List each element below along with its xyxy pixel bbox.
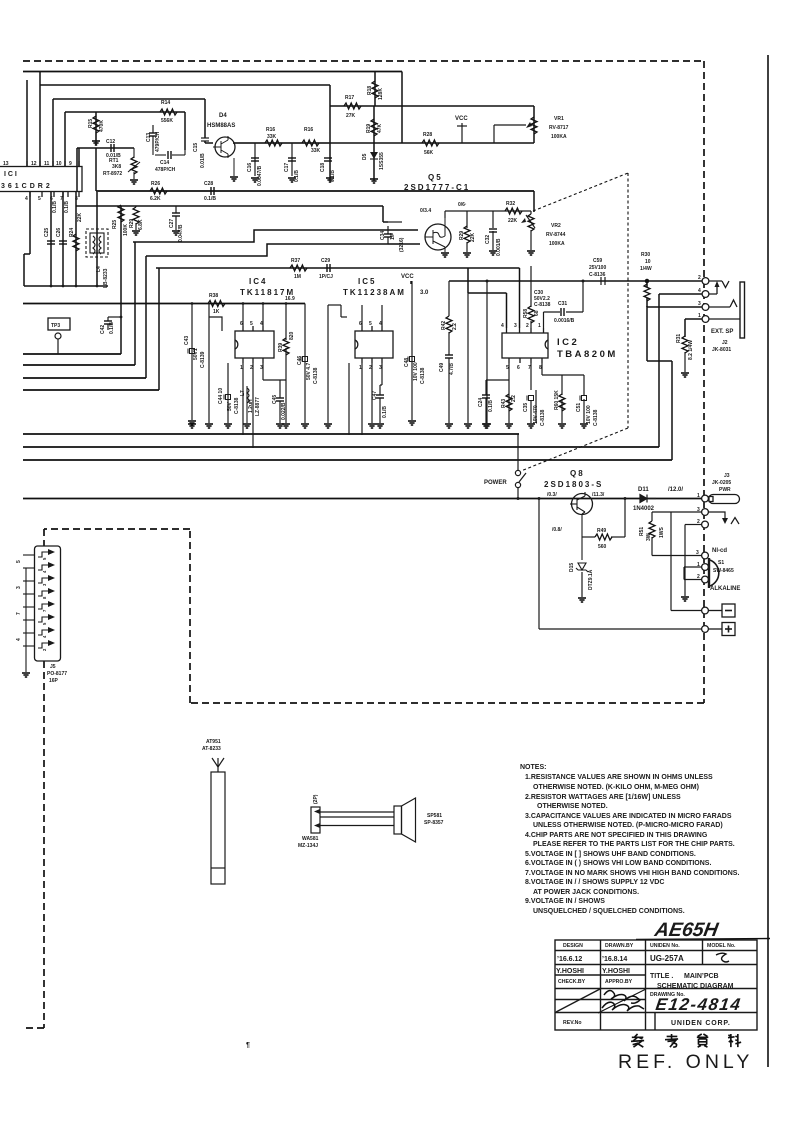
svg-text:10V 470: 10V 470 (533, 405, 539, 424)
svg-text:VCC: VCC (401, 274, 414, 280)
svg-text:100KA: 100KA (549, 241, 565, 247)
svg-text:9: 9 (69, 161, 72, 167)
svg-text:1N4002: 1N4002 (633, 506, 655, 512)
svg-text:Q8: Q8 (570, 469, 585, 478)
svg-text:VR2: VR2 (551, 223, 561, 229)
svg-text:R38: R38 (209, 293, 218, 299)
svg-text:C-8138: C-8138 (540, 409, 546, 426)
svg-text:VCC: VCC (455, 116, 468, 122)
svg-text:R16: R16 (304, 127, 313, 133)
svg-text:C-8138: C-8138 (534, 302, 551, 308)
svg-text:R18: R18 (367, 86, 373, 95)
svg-text:/12.0/: /12.0/ (668, 487, 683, 493)
svg-text:1.RESISTANCE VALUES ARE SHOWN: 1.RESISTANCE VALUES ARE SHOWN IN OHMS UN… (525, 774, 713, 781)
svg-text:R26: R26 (151, 181, 160, 187)
svg-text:7: 7 (60, 196, 63, 202)
svg-text:4.CHIP PARTS ARE NOT SPECIFIED: 4.CHIP PARTS ARE NOT SPECIFIED IN THIS D… (525, 832, 708, 839)
svg-text:C42: C42 (100, 325, 106, 334)
svg-text:R14: R14 (161, 100, 170, 106)
svg-text:R39: R39 (278, 343, 284, 352)
svg-text:TP3: TP3 (51, 323, 60, 329)
svg-text:D11: D11 (638, 487, 649, 493)
svg-text:R25: R25 (112, 220, 118, 229)
svg-text:SW-8465: SW-8465 (713, 568, 734, 574)
svg-text:Y.HOSHI: Y.HOSHI (556, 968, 584, 975)
svg-text:(2P): (2P) (313, 794, 319, 804)
svg-text:0.1/B: 0.1/B (488, 400, 494, 412)
svg-text:R15: R15 (88, 119, 94, 128)
svg-text:C32: C32 (485, 235, 491, 244)
svg-text:RV-8744: RV-8744 (546, 232, 566, 238)
svg-text:/11.3/: /11.3/ (592, 492, 605, 498)
svg-text:1: 1 (538, 323, 541, 329)
svg-text:SP-8357: SP-8357 (424, 820, 444, 826)
svg-text:C43: C43 (184, 336, 190, 345)
svg-text:IC5: IC5 (358, 277, 376, 286)
svg-text:MZ-134J: MZ-134J (298, 843, 318, 849)
svg-text:HSM88AS: HSM88AS (207, 123, 235, 129)
svg-text:3: 3 (698, 301, 701, 307)
svg-text:J3: J3 (724, 473, 730, 479)
svg-text:0.1/B: 0.1/B (330, 170, 336, 182)
svg-text:Y.HOSHI: Y.HOSHI (602, 968, 630, 975)
svg-text:C48: C48 (404, 358, 410, 367)
svg-text:C13: C13 (146, 133, 152, 142)
svg-text:8.VOLTAGE IN / / SHOWS SUPPL: 8.VOLTAGE IN / / SHOWS SUPPLY 12 VDC (525, 879, 664, 886)
svg-text:(3216): (3216) (399, 237, 405, 252)
svg-text:ALKALINE: ALKALINE (710, 586, 740, 592)
svg-text:TITLE .: TITLE . (650, 973, 673, 980)
svg-text:AE65H: AE65H (652, 919, 720, 941)
svg-text:C25: C25 (44, 228, 50, 237)
svg-text:R42: R42 (441, 321, 447, 330)
svg-text:R29: R29 (129, 219, 135, 228)
svg-text:5: 5 (250, 321, 253, 327)
svg-text:1K: 1K (213, 309, 220, 315)
svg-text:APPRO.BY: APPRO.BY (605, 979, 633, 985)
svg-text:R16: R16 (266, 127, 275, 133)
svg-text:R60 15K: R60 15K (554, 390, 560, 410)
svg-text:0.047/B: 0.047/B (178, 224, 184, 242)
svg-text:C-8138: C-8138 (593, 409, 599, 426)
svg-text:7: 7 (16, 612, 22, 615)
svg-text:820: 820 (289, 331, 295, 340)
svg-text:5: 5 (16, 560, 22, 563)
svg-text:UNSQUELCHED / SQUELCHED CONDIT: UNSQUELCHED / SQUELCHED CONDITIONS. (533, 908, 685, 915)
svg-text:8: 8 (75, 196, 78, 202)
svg-text:560: 560 (598, 544, 607, 550)
svg-text:R37: R37 (291, 258, 300, 264)
svg-text:C17: C17 (284, 163, 290, 172)
svg-text:C16: C16 (247, 163, 253, 172)
svg-text:S1: S1 (718, 560, 724, 566)
svg-text:5: 5 (369, 321, 372, 327)
svg-text:PLEASE REFER TO THE PARTS LIST: PLEASE REFER TO THE PARTS LIST FOR THE C… (533, 841, 735, 848)
svg-text:/0.8/: /0.8/ (552, 527, 562, 533)
svg-text:4: 4 (698, 288, 701, 294)
svg-text:E12-4814: E12-4814 (654, 995, 742, 1014)
svg-text:0.1/B: 0.1/B (204, 196, 216, 202)
svg-text:7.VOLTAGE IN NO MARK SHOWS VHI: 7.VOLTAGE IN NO MARK SHOWS VHI HIGH BAND… (525, 870, 739, 877)
svg-text:R17: R17 (345, 95, 354, 101)
svg-text:Q5: Q5 (428, 173, 443, 182)
svg-text:’16.8.14: ’16.8.14 (602, 956, 627, 963)
svg-text:C29: C29 (321, 258, 330, 264)
svg-text:C-8139: C-8139 (200, 351, 206, 368)
svg-text:R43: R43 (501, 399, 507, 408)
svg-text:3.CAPACITANCE VALUES ARE INDIC: 3.CAPACITANCE VALUES ARE INDICATED IN MI… (525, 813, 732, 820)
svg-text:0/6·: 0/6· (458, 202, 467, 208)
svg-text:LZ-8877: LZ-8877 (255, 397, 261, 416)
svg-text:JK-8031: JK-8031 (712, 347, 731, 353)
svg-text:R31: R31 (676, 334, 682, 343)
svg-text:13: 13 (3, 161, 9, 167)
svg-text:UNIDEN No.: UNIDEN No. (650, 943, 680, 949)
svg-text:R19: R19 (366, 124, 372, 133)
svg-text:C-8138: C-8138 (234, 397, 240, 414)
svg-text:10: 10 (56, 161, 62, 167)
svg-text:2.RESISTOR WATTAGES ARE [1/16W: 2.RESISTOR WATTAGES ARE [1/16W] UNLESS (525, 794, 681, 801)
svg-text:5: 5 (38, 196, 41, 202)
svg-text:C31: C31 (558, 301, 567, 307)
svg-text:0.1/B: 0.1/B (52, 201, 58, 213)
svg-text:16.9: 16.9 (285, 296, 295, 302)
svg-text:C59: C59 (593, 258, 602, 264)
svg-text:1: 1 (697, 493, 700, 499)
svg-text:C51: C51 (576, 403, 582, 412)
svg-text:47K: 47K (377, 123, 383, 133)
svg-text:C-8138: C-8138 (313, 367, 319, 384)
svg-text:L7: L7 (240, 390, 246, 396)
svg-text:/0.3/: /0.3/ (547, 492, 557, 498)
svg-text:EXT. SP: EXT. SP (711, 329, 733, 335)
svg-text:OTHERWISE NOTED.: OTHERWISE NOTED. (537, 803, 608, 810)
svg-text:50V 4.7: 50V 4.7 (306, 363, 312, 380)
svg-text:SCHEMATIC DIAGRAM: SCHEMATIC DIAGRAM (657, 983, 734, 990)
svg-text:1WS: 1WS (659, 527, 665, 539)
svg-text:AT951: AT951 (206, 739, 221, 745)
svg-text:C44 10: C44 10 (218, 388, 224, 404)
svg-text:556K: 556K (161, 118, 173, 124)
svg-text:1: 1 (698, 313, 701, 319)
svg-text:C18: C18 (320, 163, 326, 172)
svg-text:D15: D15 (569, 563, 575, 572)
svg-text:C35: C35 (523, 403, 529, 412)
svg-text:J5: J5 (50, 664, 56, 670)
svg-text:C27: C27 (169, 219, 175, 228)
svg-text:NOTES:: NOTES: (520, 764, 546, 771)
svg-text:361CDR2: 361CDR2 (1, 183, 53, 190)
svg-text:2SD1777-C1: 2SD1777-C1 (404, 183, 470, 192)
svg-text:0.022/B: 0.022/B (281, 402, 287, 420)
svg-text:128K: 128K (378, 88, 384, 100)
svg-text:C45: C45 (272, 395, 278, 404)
svg-text:¶: ¶ (246, 1042, 250, 1049)
svg-text:DRAWN.BY: DRAWN.BY (605, 943, 634, 949)
svg-text:MODEL No.: MODEL No. (707, 943, 736, 949)
svg-text:6.VOLTAGE IN ( ) SHOWS VHI LO: 6.VOLTAGE IN ( ) SHOWS VHI LOW BAND COND… (525, 860, 711, 867)
svg-text:R28: R28 (423, 132, 432, 138)
svg-text:4.7/B: 4.7/B (449, 363, 455, 375)
svg-text:33K: 33K (267, 134, 277, 140)
svg-text:2.2: 2.2 (511, 395, 517, 402)
svg-text:100KA: 100KA (551, 134, 567, 140)
svg-text:TK11238AM: TK11238AM (343, 288, 406, 297)
svg-text:C26: C26 (56, 228, 62, 237)
svg-text:VR1: VR1 (554, 116, 564, 122)
svg-text:478P/CH: 478P/CH (155, 167, 176, 173)
svg-text:PWR: PWR (719, 487, 731, 493)
svg-text:1SS355: 1SS355 (379, 152, 385, 170)
svg-text:1P/CJ: 1P/CJ (319, 274, 333, 280)
svg-text:UNIDEN CORP.: UNIDEN CORP. (671, 1020, 731, 1027)
svg-text:UG-257A: UG-257A (650, 954, 684, 963)
svg-text:D4: D4 (219, 113, 227, 119)
svg-text:2.2: 2.2 (452, 323, 458, 330)
svg-text:R32: R32 (506, 201, 515, 207)
svg-text:1M: 1M (294, 274, 301, 280)
svg-text:DESIGN: DESIGN (563, 943, 583, 949)
svg-text:C47: C47 (372, 391, 378, 400)
svg-text:R58: R58 (523, 309, 529, 318)
svg-text:D5: D5 (362, 153, 368, 160)
svg-text:C34: C34 (380, 231, 386, 240)
svg-text:10: 10 (645, 259, 651, 265)
svg-text:4: 4 (16, 638, 22, 641)
svg-text:WA581: WA581 (302, 836, 319, 842)
svg-text:NI-cd: NI-cd (712, 548, 727, 554)
svg-text:1/F: 1/F (390, 233, 396, 240)
svg-text:27K: 27K (346, 113, 356, 119)
svg-text:2: 2 (526, 323, 529, 329)
svg-text:C14: C14 (160, 160, 169, 166)
svg-text:SP581: SP581 (427, 813, 442, 819)
svg-text:3: 3 (16, 586, 22, 589)
svg-text:LB-8233: LB-8233 (103, 268, 109, 288)
svg-text:R29: R29 (459, 231, 465, 240)
svg-text:R51: R51 (639, 527, 645, 536)
svg-text:56K: 56K (424, 150, 434, 156)
svg-text:10V 100: 10V 100 (586, 405, 592, 424)
svg-text:0.1/B: 0.1/B (382, 406, 388, 418)
svg-text:0.01/B: 0.01/B (200, 153, 206, 168)
svg-text:UNLESS OTHERWISE NOTED. (P-MI: UNLESS OTHERWISE NOTED. (P-MICRO-MICRO F… (533, 822, 723, 829)
svg-text:J2: J2 (722, 340, 728, 346)
svg-text:AT-8233: AT-8233 (202, 746, 221, 752)
svg-text:RT-8972: RT-8972 (103, 171, 122, 177)
svg-text:4: 4 (25, 196, 28, 202)
svg-text:R49: R49 (597, 528, 606, 534)
svg-text:1.2uH: 1.2uH (248, 399, 254, 413)
svg-text:5.VOLTAGE IN [ ] SHOWS UHF BA: 5.VOLTAGE IN [ ] SHOWS UHF BAND CONDITIO… (525, 851, 696, 858)
svg-text:6: 6 (517, 365, 520, 371)
svg-text:3.0: 3.0 (420, 290, 429, 296)
svg-text:68: 68 (534, 310, 540, 316)
svg-text:0.1/B: 0.1/B (294, 170, 300, 182)
svg-text:16P: 16P (49, 678, 59, 684)
svg-text:C15: C15 (193, 143, 199, 152)
svg-text:3W: 3W (646, 533, 652, 541)
svg-text:2: 2 (698, 275, 701, 281)
svg-text:OTHERWISE NOTED. (K-KILO OHM,: OTHERWISE NOTED. (K-KILO OHM, M-MEG OHM) (533, 784, 699, 791)
svg-text:C12: C12 (106, 139, 115, 145)
svg-text:TBA820M: TBA820M (557, 349, 618, 360)
svg-text:C-8136: C-8136 (589, 272, 606, 278)
svg-text:C-8138: C-8138 (420, 367, 426, 384)
svg-text:IC4: IC4 (249, 277, 267, 286)
svg-text:CHECK.BY: CHECK.BY (558, 979, 586, 985)
svg-text:0.0016/B: 0.0016/B (554, 318, 575, 324)
svg-text:0.1/B: 0.1/B (64, 201, 70, 213)
svg-text:6.2K: 6.2K (150, 196, 161, 202)
svg-text:33K: 33K (311, 148, 321, 154)
svg-text:479P/CH: 479P/CH (155, 131, 161, 152)
svg-text:6.8K: 6.8K (138, 219, 144, 230)
svg-text:C24: C24 (478, 398, 484, 407)
svg-text:PO-8177: PO-8177 (47, 671, 67, 677)
svg-text:JK-0205: JK-0205 (712, 480, 731, 486)
svg-text:0.001/B: 0.001/B (496, 238, 502, 256)
svg-text:470K: 470K (99, 120, 105, 132)
svg-text:2SD1803-S: 2SD1803-S (544, 480, 603, 489)
svg-text:1/4W: 1/4W (640, 266, 652, 272)
svg-text:R24: R24 (69, 228, 75, 237)
svg-text:25V100: 25V100 (589, 265, 606, 271)
svg-text:IC2: IC2 (557, 337, 579, 348)
svg-text:11: 11 (44, 161, 50, 167)
svg-text:REF. ONLY: REF. ONLY (618, 1051, 753, 1073)
svg-text:L4: L4 (96, 266, 102, 272)
svg-text:50V1: 50V1 (193, 348, 199, 360)
svg-text:C28: C28 (204, 181, 213, 187)
svg-text:0.0047/B: 0.0047/B (257, 165, 263, 186)
svg-text:C46: C46 (297, 356, 303, 365)
svg-text:POWER: POWER (484, 480, 507, 486)
svg-text:4: 4 (501, 323, 504, 329)
svg-text:22K: 22K (470, 232, 476, 242)
svg-text:50V: 50V (227, 401, 233, 411)
svg-text:C49: C49 (439, 363, 445, 372)
svg-text:22K: 22K (508, 218, 518, 224)
svg-text:8.2 1/4W: 8.2 1/4W (688, 340, 694, 360)
svg-text:3K8: 3K8 (112, 164, 121, 170)
svg-text:R30: R30 (641, 252, 650, 258)
svg-text:3: 3 (514, 323, 517, 329)
svg-text:AT POWER JACK CONDITIONS.: AT POWER JACK CONDITIONS. (533, 889, 639, 896)
svg-text:12: 12 (31, 161, 37, 167)
svg-text:’16.6.12: ’16.6.12 (557, 956, 582, 963)
svg-text:9.VOLTAGE IN / SHOWS: 9.VOLTAGE IN / SHOWS (525, 898, 605, 905)
svg-text:0.1/B: 0.1/B (109, 322, 115, 334)
svg-text:MAIN’PCB: MAIN’PCB (684, 973, 719, 980)
svg-text:DTZ9.1A: DTZ9.1A (588, 569, 594, 590)
svg-text:I C I: I C I (4, 171, 17, 178)
svg-text:0/3.4: 0/3.4 (420, 208, 431, 214)
svg-text:10V 100: 10V 100 (413, 362, 419, 381)
svg-text:REV.No: REV.No (563, 1020, 582, 1026)
svg-text:RV-8717: RV-8717 (549, 125, 569, 131)
svg-text:22K: 22K (77, 212, 83, 222)
